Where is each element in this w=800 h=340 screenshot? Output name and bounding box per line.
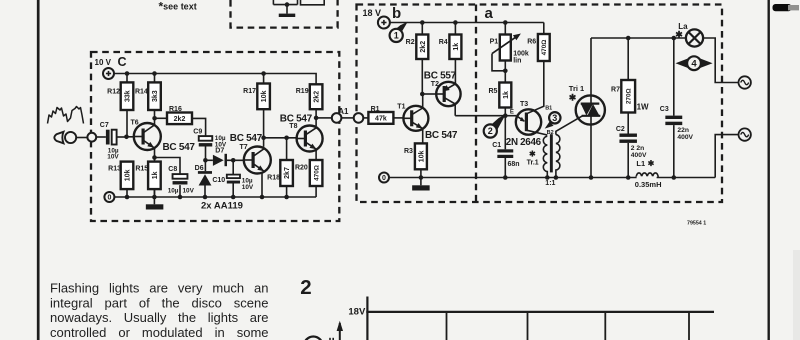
svg-text:T6: T6 [131, 120, 139, 127]
svg-text:10k: 10k [418, 150, 425, 162]
svg-text:R20: R20 [295, 165, 308, 172]
svg-text:a: a [485, 5, 494, 22]
svg-text:R3: R3 [404, 148, 413, 155]
svg-text:T7: T7 [240, 144, 248, 151]
svg-text:10k: 10k [125, 169, 132, 181]
svg-text:C3: C3 [660, 106, 669, 113]
svg-text:100k: 100k [513, 50, 529, 57]
svg-text:integral part of the disco sce: integral part of the disco scene [50, 295, 269, 310]
svg-text:400V: 400V [631, 152, 647, 159]
svg-text:BC 547: BC 547 [230, 133, 263, 144]
svg-text:R6: R6 [527, 39, 536, 46]
svg-text:3k3: 3k3 [152, 90, 159, 102]
svg-text:R12: R12 [107, 89, 120, 96]
svg-text:R19: R19 [296, 88, 309, 95]
svg-text:1k: 1k [453, 43, 460, 51]
svg-text:R2: R2 [406, 39, 415, 46]
svg-text:1k: 1k [503, 91, 510, 99]
svg-text:R18: R18 [267, 175, 280, 182]
svg-text:R16: R16 [169, 106, 182, 113]
svg-text:✱: ✱ [569, 93, 577, 103]
svg-text:R14: R14 [135, 89, 148, 96]
svg-text:C2: C2 [616, 126, 625, 133]
svg-text:T8: T8 [289, 123, 297, 130]
svg-text:2x AA119: 2x AA119 [201, 200, 243, 211]
svg-text:R4: R4 [439, 39, 448, 46]
svg-text:0: 0 [107, 195, 111, 202]
svg-text:BC 557: BC 557 [424, 70, 457, 81]
svg-text:T1: T1 [397, 104, 405, 111]
svg-text:R17: R17 [243, 88, 256, 95]
svg-text:10µ: 10µ [168, 188, 179, 195]
svg-text:470Ω: 470Ω [313, 165, 320, 181]
svg-text:C10: C10 [212, 177, 225, 184]
svg-text:R7: R7 [611, 87, 620, 94]
svg-text:1: 1 [394, 31, 399, 41]
svg-text:18 V: 18 V [363, 8, 382, 18]
svg-text:0.35mH: 0.35mH [635, 180, 662, 189]
svg-text:R5: R5 [488, 88, 497, 95]
svg-text:1k: 1k [152, 171, 159, 179]
svg-text:4: 4 [691, 59, 697, 70]
svg-text:R1: R1 [371, 106, 380, 113]
svg-text:P1: P1 [490, 39, 499, 46]
svg-text:BC 547: BC 547 [425, 130, 458, 141]
svg-text:L1: L1 [636, 159, 645, 168]
svg-text:2k2: 2k2 [420, 41, 427, 53]
svg-text:470Ω: 470Ω [541, 40, 548, 56]
svg-text:Tr.1: Tr.1 [527, 159, 539, 166]
svg-text:✱: ✱ [648, 159, 655, 168]
svg-text:0: 0 [382, 175, 386, 182]
svg-text:10V: 10V [183, 188, 195, 195]
svg-text:b: b [392, 5, 401, 22]
svg-text:R13: R13 [108, 166, 121, 173]
svg-text:18V: 18V [348, 307, 366, 318]
svg-text:79554 1: 79554 1 [687, 221, 706, 227]
svg-text:2k2: 2k2 [314, 91, 321, 103]
svg-text:2N 2646: 2N 2646 [506, 137, 542, 148]
svg-text:400V: 400V [677, 134, 693, 141]
svg-text:22n: 22n [677, 127, 689, 134]
svg-text:C1: C1 [492, 142, 501, 149]
svg-text:D6: D6 [195, 165, 204, 172]
svg-text:*see text: *see text [159, 0, 197, 13]
svg-text:1:1: 1:1 [545, 180, 555, 187]
svg-text:33k: 33k [125, 90, 132, 102]
svg-text:BC 547: BC 547 [163, 142, 196, 153]
svg-text:lin: lin [513, 58, 521, 65]
svg-text:2k2: 2k2 [174, 116, 186, 123]
svg-text:270Ω: 270Ω [626, 88, 633, 104]
svg-text:2: 2 [300, 276, 311, 299]
svg-text:C7: C7 [100, 122, 109, 129]
svg-text:T2: T2 [431, 81, 439, 88]
svg-text:C: C [118, 55, 127, 69]
svg-text:R15: R15 [135, 165, 148, 172]
svg-text:10V: 10V [242, 184, 254, 191]
svg-text:E: E [510, 109, 514, 115]
svg-text:C8: C8 [168, 166, 177, 173]
svg-text:Tri 1: Tri 1 [569, 84, 584, 93]
svg-text:10 V: 10 V [95, 58, 112, 67]
svg-text:C9: C9 [193, 129, 202, 136]
svg-text:2k7: 2k7 [284, 167, 291, 179]
svg-text:10k: 10k [261, 90, 268, 102]
svg-text:✱: ✱ [675, 29, 683, 39]
svg-text:3: 3 [552, 113, 557, 123]
svg-text:1W: 1W [637, 102, 649, 111]
svg-text:T3: T3 [520, 101, 528, 108]
svg-text:controlled or modulated in som: controlled or modulated in some [50, 325, 269, 340]
svg-text:D7: D7 [215, 148, 224, 155]
svg-text:47k: 47k [375, 115, 387, 122]
svg-text:68n: 68n [508, 161, 520, 168]
svg-text:2: 2 [488, 126, 493, 136]
svg-text:10V: 10V [107, 154, 119, 161]
svg-text:2 2n: 2 2n [631, 145, 644, 152]
svg-text:✱: ✱ [529, 150, 536, 159]
svg-text:A1: A1 [338, 107, 349, 116]
svg-text:Flashing lights are very much: Flashing lights are very much an [50, 281, 269, 296]
svg-text:B1: B1 [545, 105, 552, 111]
svg-text:nowadays. Usually the lights a: nowadays. Usually the lights are [50, 310, 269, 325]
